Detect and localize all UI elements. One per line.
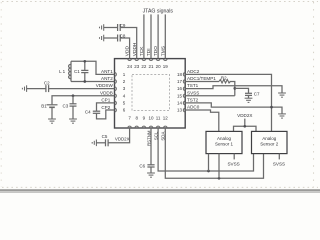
svg-text:C3: C3: [63, 104, 69, 109]
wire ADC0 net: [185, 110, 219, 131]
node C3 top: [72, 94, 75, 97]
svg-text:21: 21: [148, 64, 154, 69]
svg-text:14: 14: [177, 101, 183, 106]
svg-text:22: 22: [141, 64, 147, 69]
svg-text:C6: C6: [139, 164, 145, 169]
svg-text:20: 20: [156, 64, 162, 69]
wire TST2 net: [185, 103, 282, 114]
wire ADC2 net: [185, 74, 271, 131]
svg-text:15: 15: [177, 93, 183, 98]
rotated pin labels bottom: RSTNM SCL SDA: [146, 130, 165, 146]
svg-text:C5: C5: [102, 134, 108, 139]
svg-text:CP2: CP2: [101, 105, 110, 110]
ground (C9, left arrow): [100, 24, 104, 31]
capacitor C9: [104, 24, 137, 59]
wire VDD2X rail: [234, 119, 257, 132]
pin numbers left: [123, 72, 126, 113]
pin numbers top: [127, 64, 168, 69]
wire VDD2X net bottom: [96, 128, 129, 143]
wire CP1 net: [97, 103, 115, 111]
wire SDA net: [165, 128, 263, 178]
svg-text:17: 17: [177, 79, 183, 84]
svg-text:C1: C1: [74, 69, 80, 74]
rotated pin labels top: VDD VDDH TCK TDI TDO TMS: [125, 42, 167, 56]
resistor R2: [219, 80, 230, 84]
svg-text:C4: C4: [85, 109, 91, 114]
wire RSTNM net: [150, 128, 152, 165]
node SCL sensor1: [207, 170, 210, 173]
ground (C6): [147, 173, 155, 177]
battery B1: [47, 105, 58, 119]
svg-text:Sensor 1: Sensor 1: [215, 141, 234, 146]
svg-text:C9: C9: [120, 23, 126, 28]
ground (TST1): [278, 93, 286, 97]
svg-text:24: 24: [127, 64, 133, 69]
wire C7 branch: [235, 88, 249, 93]
capacitor C6: [147, 165, 154, 173]
sensor2 SVSS stub: [278, 154, 280, 160]
wire ANT2 net: [71, 81, 115, 83]
svg-text:L 1: L 1: [59, 69, 66, 74]
svg-text:10: 10: [148, 116, 154, 121]
svg-text:ANT2: ANT2: [101, 76, 113, 81]
wire VDDB net: [52, 96, 115, 105]
IC U1 package outline: [115, 59, 186, 128]
node R2/C7 junction: [233, 87, 236, 90]
ground (C3): [69, 119, 77, 123]
wire ADC1 to node: [230, 82, 235, 96]
wire ADC1/TEMP1 net: [185, 81, 219, 83]
svg-text:12: 12: [163, 116, 169, 121]
svg-text:ADC1/TEMP1: ADC1/TEMP1: [187, 76, 216, 81]
sensor1 SCL stub: [208, 154, 210, 171]
svg-text:VDDSW: VDDSW: [96, 83, 114, 88]
pin numbers bottom: [128, 116, 168, 121]
wire ANT1 net: [71, 61, 115, 74]
capacitor C3: [70, 96, 77, 119]
svg-text:13: 13: [177, 108, 183, 113]
wire TST1 net: [185, 86, 282, 93]
svg-text:B1: B1: [41, 104, 47, 109]
node SDA sensor1: [218, 177, 221, 180]
svg-text:C8: C8: [120, 33, 126, 38]
svg-text:TST1: TST1: [187, 83, 199, 88]
inductor L1: [69, 61, 71, 81]
svg-text:SVSS: SVSS: [273, 161, 285, 166]
svg-text:TST2: TST2: [187, 98, 199, 103]
svg-text:Analog: Analog: [262, 136, 277, 141]
svg-text:SVSS: SVSS: [187, 90, 199, 95]
svg-text:JTAG signals: JTAG signals: [143, 8, 174, 14]
svg-text:C2: C2: [44, 80, 50, 85]
svg-text:CP1: CP1: [101, 98, 110, 103]
capacitor C1: [81, 61, 88, 81]
ground (B1): [48, 119, 56, 123]
svg-text:Analog: Analog: [217, 136, 232, 141]
capacitor C5: [106, 139, 109, 146]
wire SVSS net: [185, 95, 235, 97]
svg-text:11: 11: [156, 116, 161, 121]
wire VDDSW net: [27, 88, 115, 90]
svg-text:Sensor 2: Sensor 2: [260, 141, 279, 146]
svg-text:C7: C7: [254, 92, 260, 97]
svg-text:R2: R2: [221, 75, 227, 80]
pin notches: [115, 59, 186, 128]
node TST2/ADC2 crossing: [270, 106, 273, 109]
ground (TST2): [278, 114, 286, 118]
svg-text:ADC0: ADC0: [187, 105, 200, 110]
svg-text:19: 19: [163, 64, 169, 69]
ground (C5, left arrow): [92, 140, 96, 147]
svg-text:ANT1: ANT1: [101, 69, 113, 74]
ground (C7): [245, 98, 253, 102]
svg-text:23: 23: [134, 64, 140, 69]
JTAG wires TCK TDI TDO TMS: [144, 14, 165, 58]
node VDD2X rail: [243, 125, 246, 128]
svg-text:ADC2: ADC2: [187, 69, 200, 74]
svg-text:18: 18: [177, 72, 183, 77]
svg-text:16: 16: [177, 86, 183, 91]
svg-text:VDD2X: VDD2X: [237, 113, 252, 118]
ground (C2, left arrow): [22, 85, 26, 92]
Analog Sensor 2 box: [252, 131, 288, 153]
node L1/C1 top: [83, 60, 86, 63]
IC exposed pad (dashed): [132, 75, 170, 111]
node C1 bottom: [83, 80, 86, 83]
wire SCL net: [158, 128, 253, 171]
pin numbers right: [177, 72, 183, 113]
ground (C8, left arrow): [100, 35, 104, 42]
capacitor C7: [245, 93, 252, 98]
capacitor C8: [104, 35, 130, 59]
Analog Sensor 1 box: [206, 131, 242, 153]
capacitor C4: [93, 111, 100, 113]
svg-text:VDD2X: VDD2X: [115, 136, 130, 141]
wire CP2 net: [97, 110, 115, 119]
svg-text:VDDB: VDDB: [100, 90, 113, 95]
sensor1 SDA stub: [218, 154, 220, 179]
sensor1 SVSS stub: [233, 154, 235, 160]
svg-text:SVSS: SVSS: [227, 161, 239, 166]
capacitor C2: [46, 85, 49, 92]
